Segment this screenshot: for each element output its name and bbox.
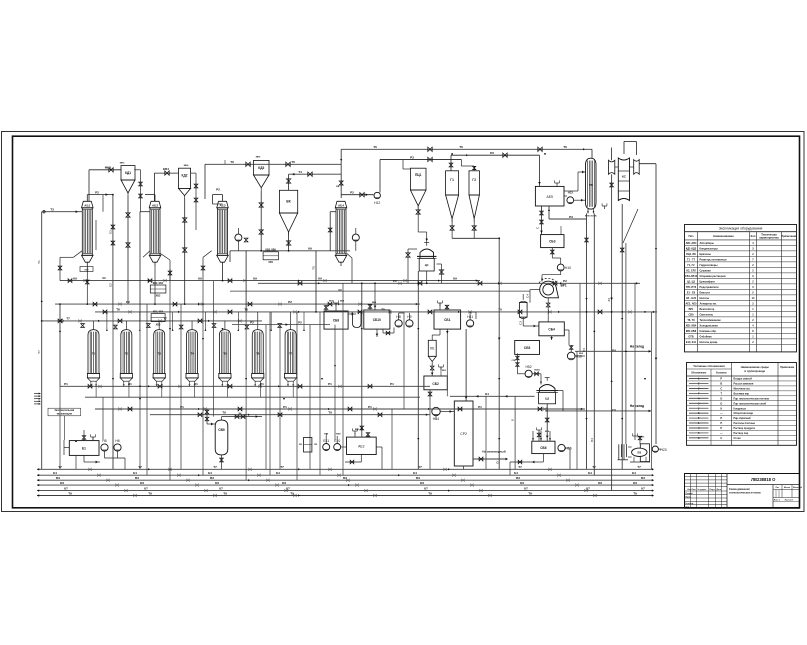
vertical 418 from Ц1: [417, 271, 419, 469]
svg-text:Е4: Е4: [588, 471, 592, 475]
dryer КС: [618, 158, 629, 201]
svg-text:Р1: Р1: [478, 405, 482, 409]
svg-text:Н.контр.: Н.контр.: [686, 503, 695, 505]
АЕ5 connections: [541, 206, 543, 235]
svg-text:СБ9: СБ9: [333, 319, 340, 323]
tank Е1: [69, 441, 99, 456]
svg-text:Оборотная вода: Оборотная вода: [734, 412, 754, 415]
riser 246: [245, 251, 247, 312]
exchanger right of КС: [634, 160, 640, 175]
reactor outlet manifold: [85, 396, 420, 398]
svg-text:Н16: Н16: [565, 447, 571, 451]
К9 end arrow: [476, 279, 478, 281]
svg-text:Рассол аммония: Рассол аммония: [734, 383, 754, 386]
svg-text:МН6: МН6: [256, 157, 261, 159]
collector СБ5: [515, 341, 540, 355]
svg-text:Р1: Р1: [283, 405, 287, 409]
svg-text:ЕВО: ЕВО: [355, 429, 360, 431]
АБ2 bottom piping: [143, 251, 150, 258]
Ц1 side lines: [407, 249, 409, 283]
svg-text:Т9: Т9: [222, 411, 226, 415]
svg-text:П: П: [720, 421, 722, 425]
svg-text:СБ3: СБ3: [549, 240, 556, 244]
svg-text:С: С: [720, 436, 722, 440]
collector СБ2: [424, 376, 447, 390]
svg-text:Е4: Е4: [133, 471, 137, 475]
svg-text:ЕВ: ЕВ: [336, 186, 339, 188]
svg-text:Сушилки: Сушилки: [700, 270, 712, 273]
svg-text:АБ2: АБ2: [152, 203, 158, 207]
svg-text:Р3: Р3: [569, 215, 573, 219]
title block: [685, 474, 800, 509]
СР2 bottom outlet: [463, 466, 465, 469]
svg-text:Т6: Т6: [563, 145, 567, 149]
svg-text:Н23: Н23: [660, 448, 666, 452]
svg-text:Подогреватели: Подогреватели: [700, 286, 719, 289]
svg-text:Циклоны: Циклоны: [700, 253, 711, 256]
equipment table: [685, 225, 797, 352]
Е6 connections: [639, 440, 641, 444]
svg-text:Т4: Т4: [298, 170, 302, 174]
svg-text:Е1: Е1: [82, 447, 86, 451]
bus Т8-Т0: [95, 311, 657, 313]
svg-text:Ц1, Ц3: Ц1, Ц3: [687, 281, 695, 284]
svg-text:Т7: Т7: [637, 465, 641, 469]
svg-text:Т9: Т9: [328, 411, 332, 415]
svg-text:Об: Об: [140, 481, 144, 485]
svg-text:Т9: Т9: [148, 491, 152, 495]
svg-text:ХБ1-ХБ4: ХБ1-ХБ4: [686, 325, 697, 328]
svg-text:—: —: [720, 412, 723, 415]
svg-text:В3: В3: [343, 476, 347, 480]
svg-text:Поз: Поз: [688, 234, 694, 238]
svg-text:Масса: Масса: [784, 487, 791, 489]
svg-text:ЛОВ1: ЛОВ1: [534, 370, 540, 372]
svg-text:Р: Р: [720, 377, 722, 381]
svg-text:К7: К7: [64, 486, 68, 490]
КС side connectors: [615, 166, 619, 168]
pump Н23: [652, 446, 658, 452]
collector СБ10: [364, 310, 390, 329]
svg-text:Об: Об: [60, 481, 64, 485]
line Н1: [450, 395, 535, 397]
collector СБ6: [532, 441, 555, 453]
svg-text:Т3: Т3: [50, 208, 54, 212]
svg-text:КБ2, КБ1: КБ2, КБ1: [153, 282, 164, 285]
reactor top risers: [93, 321, 95, 330]
АБ1 to КД1 line: [89, 168, 91, 202]
misc arrows on verticals: [112, 378, 114, 380]
svg-text:Раствор продукта: Раствор продукта: [734, 427, 756, 430]
Н10 to ВР1 line: [560, 271, 562, 275]
svg-text:канализация: канализация: [57, 412, 73, 415]
svg-text:Т8: Т8: [116, 308, 120, 312]
svg-text:Р1: Р1: [128, 382, 132, 386]
Т6 valves: [246, 162, 250, 166]
svg-text:Р3: Р3: [410, 155, 414, 159]
svg-text:З3: З3: [607, 298, 611, 302]
svg-text:СР2: СР2: [460, 432, 467, 436]
svg-text:ОТБ: ОТБ: [688, 336, 693, 339]
svg-text:Т0: Т0: [381, 308, 385, 312]
svg-text:Р2: Р2: [350, 191, 354, 195]
svg-text:Маточник охл.: Маточник охл.: [734, 387, 751, 390]
reactor inter risers darken: [112, 409, 114, 469]
vertical 375 into СБ10: [374, 283, 376, 310]
exchanger left of КС: [609, 160, 615, 174]
svg-text:КБ5, КБ6: КБ5, КБ6: [266, 248, 277, 251]
cyclone Г2: [469, 171, 479, 195]
svg-text:технологических потоков: технологических потоков: [729, 492, 761, 495]
svg-text:О: О: [720, 401, 722, 405]
svg-text:Об: Об: [282, 481, 286, 485]
heater ПТ3: [519, 303, 527, 318]
svg-text:Об: Об: [420, 481, 424, 485]
svg-text:Т7: Т7: [418, 465, 422, 469]
vertical 499 from Г manifold: [498, 238, 500, 469]
bottom bus Об: [37, 484, 653, 486]
bottom bus В3: [37, 479, 654, 481]
pump Н8: [395, 320, 402, 327]
svg-text:СБ10: СБ10: [373, 318, 381, 322]
Т8 bottom outlets: [587, 209, 589, 213]
ПЦ1 outlet: [417, 206, 419, 216]
Р3 return line: [548, 206, 550, 219]
АБ1 discharge Р2: [87, 194, 113, 196]
КД2 right drop: [191, 172, 196, 174]
svg-text:Схема движения: Схема движения: [729, 488, 750, 491]
svg-text:СБ4: СБ4: [548, 328, 555, 332]
svg-text:Т7: Т7: [66, 317, 70, 321]
hopper ПЦ1: [410, 168, 426, 190]
reactor row Т1-Т7: [88, 330, 99, 374]
collector СБ1: [434, 310, 461, 329]
svg-text:Лист: Лист: [692, 489, 697, 491]
svg-text:Т9: Т9: [223, 491, 227, 495]
svg-text:Кол: Кол: [751, 234, 756, 238]
svg-text:Т9: Т9: [428, 491, 432, 495]
upper band short horizontals: [213, 203, 223, 205]
cyclone Г1: [446, 171, 459, 195]
svg-text:Примечание: Примечание: [781, 235, 797, 238]
svg-text:Р1: Р1: [390, 382, 394, 386]
svg-text:Т8: Т8: [589, 183, 593, 187]
СБ6 connections: [538, 432, 540, 441]
КД3 drop: [260, 191, 262, 251]
bus К9: [60, 280, 480, 282]
svg-text:СВ9: СВ9: [218, 428, 225, 432]
line С2 to plant: [473, 458, 507, 460]
svg-text:Листов 1: Листов 1: [785, 500, 795, 502]
svg-text:СБ2: СБ2: [432, 382, 439, 386]
svg-text:Условное: Условное: [716, 373, 728, 375]
svg-text:Т8, Т9: Т8, Т9: [687, 319, 695, 322]
tank Е6: [640, 444, 649, 462]
svg-text:Утв.: Утв.: [686, 507, 690, 509]
svg-text:В4: В4: [590, 438, 594, 442]
svg-text:Р2: Р2: [250, 320, 254, 324]
Ц3 agitator crossbar: [545, 377, 550, 379]
svg-text:ЛВ238818 О: ЛВ238818 О: [751, 477, 776, 482]
heat exch box КБ5: [263, 252, 278, 260]
ВР1 connections: [530, 289, 540, 291]
svg-text:Е4: Е4: [53, 471, 57, 475]
СБ2 to Н14: [429, 390, 431, 398]
bus end arrows right: [652, 468, 654, 470]
svg-text:АБ1: АБ1: [84, 203, 90, 207]
СБ9 connections: [335, 303, 337, 311]
valves on buses: [68, 279, 72, 283]
svg-text:К9: К9: [318, 276, 322, 280]
svg-text:Наименование: Наименование: [713, 234, 734, 238]
svg-text:В3: В3: [210, 476, 214, 480]
svg-text:На склад: На склад: [630, 344, 644, 348]
ВК drop: [288, 174, 290, 190]
svg-text:АЕ2: АЕ2: [358, 445, 365, 449]
svg-text:С1В: С1В: [511, 360, 516, 362]
line Т3: [42, 211, 83, 213]
drawing frame: [13, 136, 800, 508]
Г1 Г2 outlet manifold: [451, 219, 453, 239]
junction dots: [112, 194, 114, 196]
svg-text:С4: С4: [526, 294, 530, 298]
extra valves on risers: [111, 225, 115, 229]
mixer СВ9: [215, 420, 228, 455]
top line Р3 gray: [380, 159, 461, 161]
svg-text:В4: В4: [582, 348, 586, 352]
svg-text:Ц1: Ц1: [425, 263, 429, 267]
svg-text:Раствор пар: Раствор пар: [734, 432, 749, 435]
svg-text:СБ5: СБ5: [524, 346, 531, 350]
svg-text:Т9: Т9: [528, 491, 532, 495]
bus mid 291: [230, 290, 530, 292]
bus Т7 upper: [42, 320, 262, 322]
svg-text:СВ9: СВ9: [688, 314, 694, 317]
svg-text:Г1: Г1: [450, 178, 454, 182]
bottom bus Т0: [37, 495, 653, 497]
line start circles: [43, 211, 45, 213]
svg-text:Вытяжка пар: Вытяжка пар: [734, 392, 750, 395]
svg-text:Н52: Н52: [525, 365, 531, 369]
svg-text:Е6: Е6: [637, 451, 641, 455]
svg-text:Об: Об: [598, 481, 602, 485]
СВ9 connections: [221, 417, 223, 421]
svg-text:ПТ1-ПТ3: ПТ1-ПТ3: [686, 286, 697, 289]
fan ВР1: [540, 281, 559, 298]
svg-text:Т9: Т9: [290, 491, 294, 495]
svg-text:К9: К9: [253, 276, 257, 280]
hopper КД3: [254, 160, 270, 175]
svg-text:Вентилятор: Вентилятор: [700, 308, 715, 311]
fold marks: [34, 393, 41, 395]
svg-text:Т7: Т7: [280, 465, 284, 469]
bottom bus Т7: [37, 468, 653, 470]
hopper КД1: [121, 166, 135, 180]
svg-text:КД1-КД3: КД1-КД3: [686, 248, 697, 251]
svg-text:Р2: Р2: [288, 300, 292, 304]
svg-text:К7: К7: [424, 486, 428, 490]
svg-text:Г2: Г2: [472, 178, 476, 182]
column АБ2: [149, 201, 161, 208]
pump Н15: [525, 370, 532, 377]
extra left-block risers: [102, 195, 104, 212]
svg-text:ПЦ1, ВК: ПЦ1, ВК: [686, 253, 696, 256]
svg-text:В3: В3: [135, 476, 139, 480]
svg-text:Т1: Т1: [37, 260, 41, 264]
line С5 to warehouse: [545, 410, 651, 412]
pump Н6: [114, 444, 121, 451]
bus Р1 reactors: [60, 385, 430, 387]
Р2 line among reactors: [232, 324, 330, 326]
svg-text:Подп.: Подп.: [710, 489, 716, 491]
КД2 drop: [184, 199, 186, 305]
svg-text:Смеситель: Смеситель: [700, 314, 714, 317]
АБ3 feed: [204, 164, 206, 199]
extra arrows on buses: [148, 280, 150, 282]
svg-text:Р1: Р1: [328, 382, 332, 386]
svg-text:Стоки: Стоки: [734, 437, 742, 440]
svg-text:Сборники растворов: Сборники растворов: [700, 275, 727, 278]
svg-text:Р3: Р3: [490, 151, 494, 155]
top line Т4: [289, 173, 342, 175]
svg-text:В3: В3: [56, 476, 60, 480]
svg-text:К9: К9: [453, 276, 457, 280]
svg-text:КД2: КД2: [182, 174, 188, 178]
КС piping: [623, 142, 625, 155]
bus Т9: [150, 414, 430, 416]
svg-text:Аппараты ем.: Аппараты ем.: [700, 303, 717, 306]
svg-text:МН4: МН4: [184, 164, 189, 167]
Ц1 agitator crossbar: [424, 242, 429, 244]
СБ6 inlet arrows: [532, 431, 534, 441]
svg-text:На склад: На склад: [630, 404, 644, 408]
vertical 361: [361, 283, 363, 437]
СБ4 connections: [551, 336, 553, 340]
АЕ2 connections: [325, 436, 327, 444]
bus Р2 right: [258, 282, 640, 284]
hopper ВК: [279, 190, 297, 213]
svg-text:в трубопроводе: в трубопроводе: [744, 369, 765, 373]
svg-text:Е1 - Е6: Е1 - Е6: [687, 292, 696, 295]
Т5 riser: [315, 251, 317, 312]
svg-text:отб: отб: [84, 268, 89, 271]
diagonal at КС: [623, 209, 638, 243]
svg-text:Н6: Н6: [115, 439, 119, 443]
valves on bottom buses: [88, 468, 91, 471]
svg-text:Б: Б: [511, 419, 515, 421]
svg-text:АЕ5: АЕ5: [546, 195, 553, 199]
svg-text:Насосы дозир.: Насосы дозир.: [700, 341, 719, 344]
svg-text:КБ3, КБ4: КБ3, КБ4: [153, 310, 164, 313]
top line Т6 lower: [205, 163, 341, 165]
heat exchanger Т8 column: [586, 158, 597, 209]
СБ3 to Н10: [551, 248, 553, 258]
bottom bus Е4: [37, 474, 653, 476]
svg-text:Н12: Н12: [374, 201, 380, 205]
svg-text:—: —: [720, 432, 723, 435]
heat exch boxes КБ1 КБ2: [150, 285, 166, 293]
svg-text:Т9: Т9: [68, 491, 72, 495]
column АБ3: [217, 201, 229, 208]
svg-text:Пар обратный: Пар обратный: [734, 417, 752, 420]
line Р4 to warehouse: [575, 350, 651, 352]
svg-text:СБ1-СБ10: СБ1-СБ10: [685, 275, 698, 278]
svg-text:Т6: Т6: [373, 145, 377, 149]
svg-text:К9: К9: [308, 247, 312, 251]
svg-text:Гидрозатворы: Гидрозатворы: [700, 264, 718, 267]
centrifuge Ц3: [540, 385, 556, 393]
svg-text:КС, СР2: КС, СР2: [686, 270, 696, 273]
pump Н13: [567, 197, 574, 204]
svg-text:Р: Р: [720, 426, 722, 430]
valve on riser 361: [360, 426, 364, 430]
svg-text:Е4: Е4: [413, 471, 417, 475]
svg-text:СБ6: СБ6: [540, 446, 547, 450]
pump Е11: [323, 444, 330, 451]
svg-text:Теплообменники: Теплообменники: [700, 319, 721, 322]
svg-text:Экспликация оборудования: Экспликация оборудования: [719, 227, 763, 231]
hopper КД2: [179, 168, 191, 188]
svg-text:К7: К7: [144, 486, 148, 490]
trident above Е6: [633, 435, 638, 437]
svg-text:Об: Об: [520, 481, 524, 485]
svg-text:Масштаб: Масштаб: [793, 486, 803, 489]
svg-text:Ц3: Ц3: [545, 397, 549, 401]
СБ10 connections: [369, 304, 371, 310]
svg-text:Е2: Е2: [108, 230, 112, 234]
svg-text:Р1: Р1: [64, 382, 68, 386]
sheet outer border: [2, 132, 805, 512]
risers under reactors to Р1: [59, 281, 61, 387]
pump Н10: [557, 264, 564, 271]
svg-text:Т6: Т6: [291, 160, 295, 164]
svg-text:Пров.: Пров.: [686, 496, 692, 498]
Е1 connections: [83, 436, 85, 441]
АЕ2 pump risers: [325, 433, 327, 436]
svg-text:С3: С3: [519, 321, 523, 325]
svg-text:В: В: [720, 382, 722, 386]
svg-text:Пар технологических сетей: Пар технологических сетей: [734, 402, 767, 405]
stack group: [618, 444, 620, 460]
svg-text:МН5: МН5: [120, 162, 125, 164]
svg-text:Т7: Т7: [213, 465, 217, 469]
АБ2 risers: [140, 211, 150, 213]
svg-text:№ докум.: № докум.: [698, 488, 707, 491]
reactor bottom manifold links: [90, 385, 92, 387]
svg-text:Емкости: Емкости: [700, 292, 711, 295]
line legend table: [687, 363, 797, 446]
bottom bus К7: [37, 490, 654, 492]
ПТ3 to СБ4: [522, 317, 524, 326]
collector СБ9: [324, 311, 348, 329]
ПТ1 to СБ2: [431, 362, 433, 367]
misc arrows up: [41, 300, 43, 302]
svg-text:Р2: Р2: [393, 279, 397, 283]
pump Н16: [558, 444, 565, 451]
svg-text:Насосы: Насосы: [700, 297, 710, 300]
svg-text:характеристика: характеристика: [759, 237, 779, 240]
svg-text:ПТ1: ПТ1: [430, 348, 435, 351]
svg-text:Р2: Р2: [298, 320, 302, 324]
АБ2 feed lines: [145, 194, 155, 196]
svg-text:КД3: КД3: [258, 166, 264, 170]
svg-text:С: С: [720, 386, 722, 390]
apparatus АЕ5: [535, 186, 564, 206]
svg-text:КД1: КД1: [125, 171, 131, 175]
svg-text:ХБ1: ХБ1: [268, 261, 273, 264]
verticals mid to bottom buses: [59, 386, 61, 469]
svg-text:ВР1: ВР1: [689, 308, 694, 311]
